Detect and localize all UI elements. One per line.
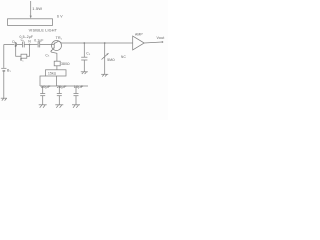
svg-text:AMP: AMP <box>135 32 143 36</box>
wire <box>3 71 5 98</box>
svg-text:10μF: 10μF <box>41 84 51 89</box>
left supply rail <box>3 45 5 68</box>
node N junction dot <box>29 44 31 46</box>
resistor R1 <box>21 54 27 58</box>
svg-text:R₁: R₁ <box>20 58 25 62</box>
svg-text:C₁: C₁ <box>21 38 26 42</box>
svg-text:5MΩ: 5MΩ <box>107 58 115 62</box>
svg-text:B₁: B₁ <box>7 69 12 73</box>
wire: emitter drop <box>51 52 57 61</box>
wire: collector rail to op-amp <box>59 41 133 43</box>
ground <box>1 98 7 100</box>
svg-text:NC: NC <box>121 55 126 59</box>
wire <box>17 44 22 46</box>
wire <box>24 44 37 46</box>
svg-text:10μF: 10μF <box>74 84 84 89</box>
svg-text:0.1μF: 0.1μF <box>34 39 43 43</box>
parallel branch left wire <box>16 45 21 57</box>
node junction dot on rail <box>104 42 106 44</box>
ground <box>72 105 80 108</box>
svg-text:25μF: 25μF <box>57 84 67 89</box>
potentiometer R2 <box>102 43 109 74</box>
wire R4 left to rail start <box>40 76 46 86</box>
transistor TR1 <box>51 41 62 52</box>
svg-text:Vout: Vout <box>157 36 165 40</box>
wire to base <box>40 44 52 46</box>
wire R3 to R4 <box>56 66 58 70</box>
resistor R3 <box>54 61 60 66</box>
ground <box>81 72 88 74</box>
wire: output <box>144 42 162 43</box>
wire: main base wire <box>4 44 15 46</box>
battery B1 <box>1 68 6 71</box>
svg-text:1.5W: 1.5W <box>32 6 42 11</box>
ground <box>39 105 47 108</box>
parallel branch right wire <box>27 45 30 57</box>
capacitor C5 (electrolytic to ground) <box>57 86 62 105</box>
capacitor C4 (electrolytic to ground) <box>40 86 45 105</box>
bottom rail <box>40 85 88 87</box>
svg-text:15kΩ: 15kΩ <box>48 72 57 76</box>
svg-text:6 V: 6 V <box>57 14 63 18</box>
svg-text:VISIBLE LIGHT: VISIBLE LIGHT <box>29 29 58 33</box>
svg-text:C₃: C₃ <box>86 52 91 56</box>
lamp L1 (light source bar) <box>8 19 53 26</box>
wire R4 to bottom rail <box>56 76 58 86</box>
capacitor C2 <box>38 42 40 48</box>
svg-text:Cₖ: Cₖ <box>45 54 50 58</box>
node junction dot on rail <box>83 42 85 44</box>
svg-text:D₁: D₁ <box>12 40 17 44</box>
photodiode D1 <box>15 42 16 47</box>
op-amp U1 <box>133 36 145 50</box>
node output terminal <box>162 41 164 43</box>
ground <box>101 74 108 76</box>
svg-text:380Ω: 380Ω <box>61 62 70 66</box>
resistor R4 <box>46 70 67 76</box>
ground <box>55 105 63 108</box>
lamp pointer arrow <box>30 1 32 19</box>
svg-text:N: N <box>28 40 31 44</box>
capacitor C3 branch <box>81 43 87 72</box>
svg-text:TR₁: TR₁ <box>56 36 63 40</box>
capacitor C1 <box>23 42 25 48</box>
capacitor C6 (electrolytic to ground) <box>74 86 79 105</box>
